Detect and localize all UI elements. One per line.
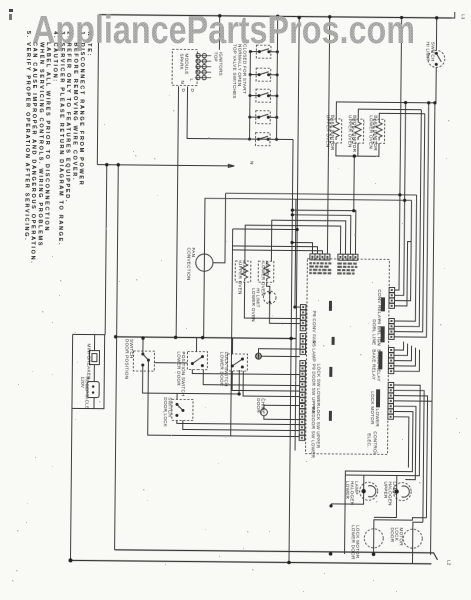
svg-text:MINI-BREAKER: MINI-BREAKER — [86, 344, 91, 381]
svg-text:L1: L1 — [461, 14, 466, 20]
svg-text:LOCK SW LOWER: LOCK SW LOWER — [316, 364, 321, 407]
svg-text:LOWER: LOWER — [345, 481, 350, 500]
svg-text:LOCK SWITCH: LOCK SWITCH — [224, 352, 229, 387]
svg-text:DOBL LINE: DOBL LINE — [372, 319, 377, 345]
svg-text:DOOR POSITION: DOOR POSITION — [124, 339, 129, 379]
svg-text:LOWER DOOR: LOWER DOOR — [219, 352, 224, 387]
svg-text:LOCK SW UPPER: LOCK SW UPPER — [316, 407, 321, 449]
svg-text:LOCK: LOCK — [394, 527, 399, 541]
svg-text:LOWER DOOR: LOWER DOOR — [351, 525, 356, 560]
svg-text:UPPER OVEN: UPPER OVEN — [347, 115, 352, 148]
svg-text:RECEPTACLE: RECEPTACLE — [84, 377, 89, 410]
svg-text:D: D — [181, 88, 186, 92]
svg-text:DOOR: DOOR — [256, 398, 261, 413]
svg-text:POSITION SWITCH: POSITION SWITCH — [181, 351, 186, 396]
svg-text:LOWER DOOR: LOWER DOOR — [176, 351, 181, 386]
svg-text:LOCK MOTOR: LOCK MOTOR — [370, 391, 375, 425]
svg-text:P5 LAMP: P5 LAMP — [311, 341, 316, 362]
svg-text:DOOR: DOOR — [390, 527, 395, 542]
svg-text:TOP: TOP — [213, 52, 218, 62]
svg-text:MOTOR: MOTOR — [399, 528, 404, 547]
svg-text:LAMP: LAMP — [354, 481, 359, 495]
svg-text:MODULE: MODULE — [184, 53, 189, 74]
svg-text:FAN: FAN — [191, 248, 196, 258]
svg-text:LOCK MOTOR: LOCK MOTOR — [355, 525, 360, 559]
svg-text:LAMP: LAMP — [265, 262, 270, 276]
svg-text:L: L — [189, 79, 194, 82]
svg-text:TOP VALVE SWITCHES: TOP VALVE SWITCHES — [232, 44, 238, 99]
svg-text:P8 CONV FAN: P8 CONV FAN — [312, 311, 317, 344]
svg-text:HI LIMIT: HI LIMIT — [425, 42, 430, 62]
svg-text:D: D — [190, 89, 195, 93]
svg-text:HI LIMIT: HI LIMIT — [255, 288, 260, 308]
svg-text:L2: L2 — [446, 560, 451, 566]
svg-text:UPPER: UPPER — [383, 481, 388, 499]
svg-text:HALOGEN: HALOGEN — [350, 481, 355, 505]
svg-text:CHIME: CHIME — [260, 398, 265, 414]
svg-text:SWITCH: SWITCH — [430, 42, 435, 62]
svg-text:ELEC.: ELEC. — [367, 433, 372, 448]
svg-text:BROIL IGNITOR: BROIL IGNITOR — [352, 115, 357, 153]
svg-text:IGNITORS: IGNITORS — [218, 52, 223, 76]
svg-text:CONVECTION: CONVECTION — [186, 247, 191, 280]
svg-text:BAKE IGNITOR: BAKE IGNITOR — [330, 115, 335, 151]
svg-text:HALOGEN: HALOGEN — [388, 481, 393, 505]
svg-text:SWITCH: SWITCH — [129, 339, 134, 359]
svg-text:LAMP: LAMP — [242, 262, 247, 276]
svg-text:LOWER OVEN: LOWER OVEN — [251, 288, 256, 322]
svg-text:SWITCH: SWITCH — [167, 397, 172, 417]
svg-text:LOWER OVEN: LOWER OVEN — [368, 115, 373, 149]
svg-text:N: N — [180, 80, 185, 84]
svg-text:N: N — [249, 161, 254, 165]
svg-text:P4 DOOR SW LOWER: P4 DOOR SW LOWER — [310, 407, 315, 459]
svg-text:CONTROL: CONTROL — [373, 431, 378, 455]
svg-text:BAKE RELAY: BAKE RELAY — [371, 349, 376, 380]
svg-text:120V: 120V — [80, 376, 85, 388]
svg-text:SPARK: SPARK — [179, 53, 184, 70]
svg-text:AppliancePartsPros.com: AppliancePartsPros.com — [32, 9, 415, 52]
svg-text:DOOR LOCK: DOOR LOCK — [163, 397, 168, 428]
svg-text:BAKE IGNITOR: BAKE IGNITOR — [373, 115, 378, 151]
